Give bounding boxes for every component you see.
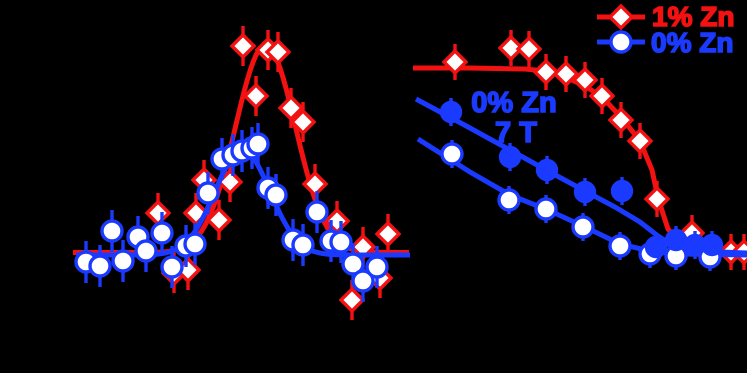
svg-text:0% Zn: 0% Zn: [651, 27, 733, 58]
svg-text:7 T: 7 T: [495, 117, 537, 149]
svg-text:0% Zn: 0% Zn: [471, 87, 556, 119]
